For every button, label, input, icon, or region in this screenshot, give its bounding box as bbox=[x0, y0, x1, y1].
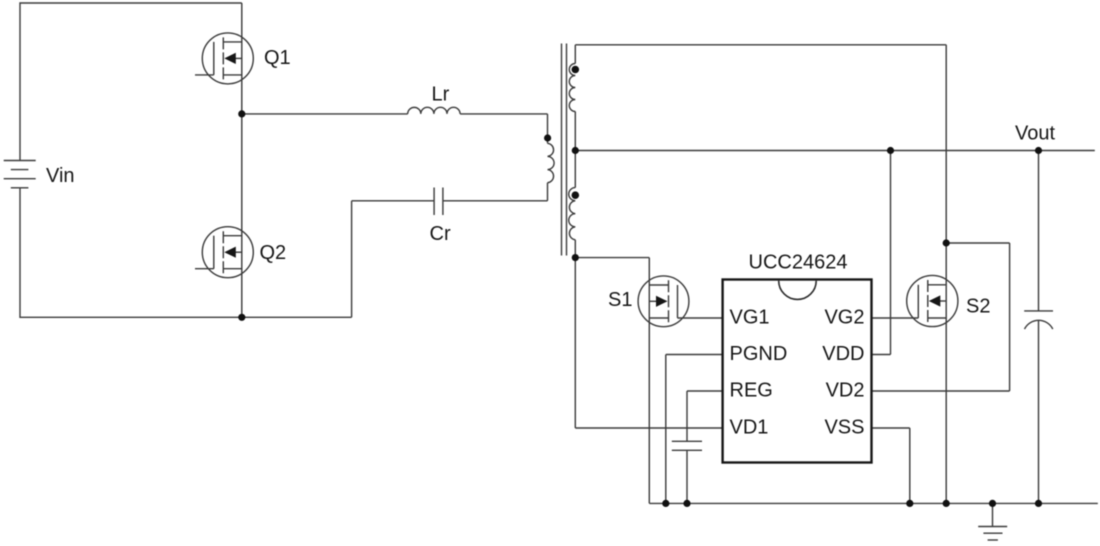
svg-text:Lr: Lr bbox=[432, 84, 450, 106]
svg-text:VDD: VDD bbox=[822, 343, 864, 365]
svg-text:VG1: VG1 bbox=[730, 307, 770, 329]
svg-text:S2: S2 bbox=[966, 296, 990, 318]
svg-text:VD2: VD2 bbox=[826, 380, 865, 402]
svg-text:S1: S1 bbox=[608, 289, 632, 311]
svg-text:VSS: VSS bbox=[824, 416, 864, 438]
svg-text:VG2: VG2 bbox=[824, 307, 864, 329]
svg-text:Vin: Vin bbox=[46, 165, 75, 187]
svg-text:Q1: Q1 bbox=[264, 47, 291, 69]
svg-text:REG: REG bbox=[730, 380, 773, 402]
svg-text:Vout: Vout bbox=[1015, 123, 1055, 145]
svg-text:Cr: Cr bbox=[430, 223, 451, 245]
svg-text:VD1: VD1 bbox=[730, 416, 769, 438]
svg-text:PGND: PGND bbox=[730, 343, 788, 365]
svg-text:Q2: Q2 bbox=[260, 242, 287, 264]
svg-text:UCC24624: UCC24624 bbox=[749, 252, 848, 274]
